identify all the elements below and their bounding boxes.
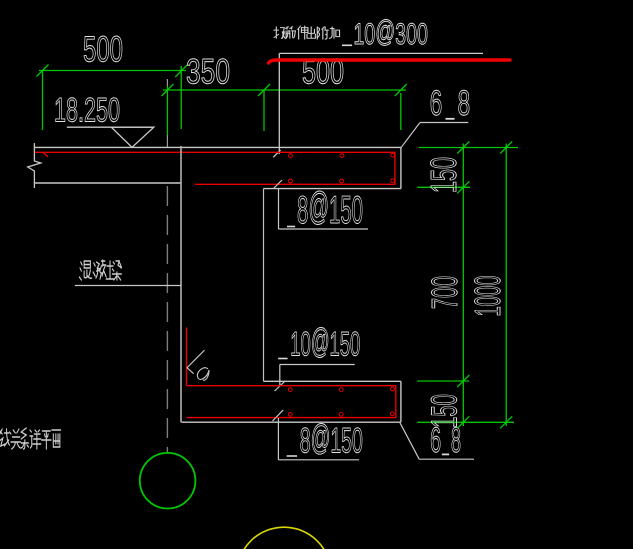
extension line y=187.5 xyxy=(417,186,470,188)
level underline xyxy=(67,126,154,128)
hanzi guan xyxy=(11,429,20,449)
hanzi fu xyxy=(317,27,328,39)
upper rebar left hook xyxy=(43,153,48,157)
label _8@150 (upper): underline xyxy=(279,228,369,230)
top annotation leader vertical xyxy=(278,53,280,154)
dim 500 left tick xyxy=(37,65,49,77)
hanzi shen xyxy=(298,26,308,39)
lower slab top line xyxy=(264,380,401,382)
upper slab bottom line right part xyxy=(264,188,401,190)
outer dim vertical xyxy=(505,144,507,427)
svg-text:150: 150 xyxy=(423,157,464,193)
phi dash of upper 8@150 xyxy=(287,226,295,228)
label _8@150 (lower): leader vertical xyxy=(277,418,279,460)
beam solid edge vertical xyxy=(180,146,182,422)
hanzi xian (clipped at left edge) xyxy=(0,429,11,446)
label 6_8 (bottom): leader diagonal xyxy=(400,423,419,459)
svg-text:500: 500 xyxy=(83,29,123,70)
extension line at x=167.5 white upper part xyxy=(166,79,168,86)
beam dashed center line xyxy=(166,186,168,453)
lower slab bottom line xyxy=(181,421,401,423)
hanzi liang xyxy=(112,261,121,280)
extension line at x=167.5 gray lower part xyxy=(166,135,168,148)
extension line y=422.3 xyxy=(417,421,514,423)
phi dash of lower 8@150 xyxy=(287,455,297,457)
hanzi jia xyxy=(329,27,339,38)
top annotation leader slash xyxy=(273,150,280,157)
hanzi tu xyxy=(106,261,114,279)
label _8@150 (upper): leader vertical xyxy=(278,189,280,229)
upper slab top line xyxy=(34,146,401,148)
hanzi xiang xyxy=(30,430,41,449)
level triangle symbol xyxy=(111,127,154,147)
dim 500 left extension line xyxy=(42,71,44,131)
extension line at x=400.8 xyxy=(400,93,402,130)
lower slab right edge xyxy=(400,381,402,422)
dimension 500 (top-left): dim line xyxy=(37,65,188,131)
top annotation chinese text ban-jin-shen-chu-fu-jia (drawn strokes) xyxy=(274,26,340,39)
tick at x=167.5 xyxy=(162,84,174,96)
ticks inner dim xyxy=(457,142,469,154)
right dimensions: extension line at slab top y=147.5 xyxy=(417,142,518,429)
dim 500 right extension line xyxy=(180,66,182,129)
label 6_8 (top): phi dash xyxy=(446,118,455,120)
svg-text:150: 150 xyxy=(424,394,465,428)
dim 500 right tick xyxy=(175,65,187,77)
tick at x=400.8 xyxy=(395,84,407,96)
upper slab right edge xyxy=(400,147,402,188)
extension line y=381 xyxy=(417,380,469,382)
svg-text:700: 700 xyxy=(424,276,465,309)
label 6_8 (top): underline xyxy=(420,122,468,124)
upper slab left edge with break xyxy=(28,143,41,188)
label 6_8 (bottom): underline xyxy=(419,458,474,460)
label _10@150: leader vertical xyxy=(279,365,281,386)
rebar section circles upper slab top row xyxy=(289,153,395,157)
ticks outer dim xyxy=(500,142,512,154)
label _8@150 (lower): leader slash xyxy=(273,410,284,421)
phi symbol dash of _10@300 xyxy=(342,44,352,46)
svg-text:6: 6 xyxy=(430,84,443,123)
svg-text:1000: 1000 xyxy=(467,276,508,317)
top annotation underline xyxy=(279,52,483,54)
beam label leader line xyxy=(75,285,181,287)
La anchorage bar (red) xyxy=(186,328,188,386)
svg-text:8: 8 xyxy=(458,84,471,123)
hanzi jin (rebar) xyxy=(286,27,296,38)
rebar section circles lower slab top row xyxy=(288,387,394,391)
label _8@150 (lower): underline xyxy=(278,459,359,461)
hanzi ping xyxy=(42,431,51,449)
label 6_8 (bottom): phi dash xyxy=(442,453,449,455)
La label strokes xyxy=(187,350,205,374)
rebar section circles lower slab bottom row xyxy=(288,412,394,416)
svg-text:10@150: 10@150 xyxy=(290,323,360,364)
lower slab rebar xyxy=(187,386,396,418)
hanzi ban (slab) xyxy=(274,27,285,38)
chinese text hun-ning-tu-liang (concrete beam) drawn strokes xyxy=(79,260,121,280)
upper slab bottom line left part xyxy=(34,182,181,184)
extension line at x=264 xyxy=(263,90,265,131)
hanzi mian xyxy=(52,430,61,447)
dimension chain 350 / 500 xyxy=(162,84,407,135)
yellow circle arc (bottom) xyxy=(237,527,331,549)
label _10@150: underline xyxy=(280,364,355,366)
rebar section circles upper slab bottom row xyxy=(289,179,395,183)
svg-text:8@150: 8@150 xyxy=(297,186,363,233)
tick at x=264 xyxy=(258,84,270,96)
label _10@150: leader slash xyxy=(275,382,285,392)
phi dash of _10@150 xyxy=(278,358,287,360)
svg-text:10@300: 10@300 xyxy=(353,15,428,51)
svg-text:350: 350 xyxy=(186,53,230,92)
La label a glyph xyxy=(197,368,209,381)
svg-text:8@150: 8@150 xyxy=(300,418,363,461)
inner dim vertical xyxy=(462,144,464,427)
svg-text:18.250: 18.250 xyxy=(54,91,120,129)
hanzi chu xyxy=(307,27,315,38)
upper slab top rebar xyxy=(35,152,395,184)
hanzi xi xyxy=(21,428,28,449)
extension line at x=167.5 green part xyxy=(166,86,168,135)
hanzi ning xyxy=(93,260,106,279)
label _8@150 (upper): leader slash xyxy=(274,180,283,189)
long leader vertical from slab bottom to lower slab xyxy=(263,189,265,382)
green detail circle xyxy=(140,453,196,509)
thick red line (added slab bars) xyxy=(269,60,511,63)
label 6_8 (top): leader diagonal xyxy=(401,123,420,148)
chinese text xian-guan-xi-xiang-ping-mian drawn strokes (bottom-left caption) xyxy=(0,428,61,449)
hanzi hun xyxy=(79,261,91,280)
